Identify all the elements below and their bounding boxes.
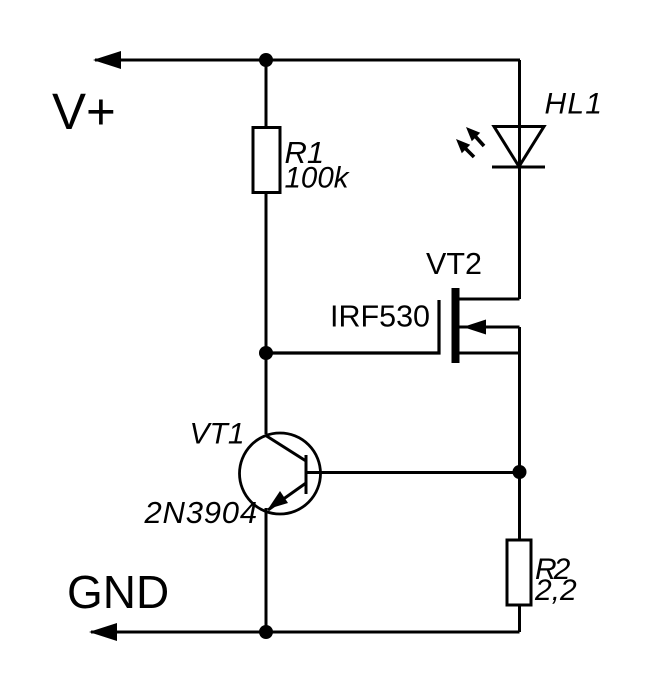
svg-text:2N3904: 2N3904 <box>144 495 258 530</box>
node gate junction <box>259 346 273 360</box>
node ground junction <box>259 625 273 639</box>
wire R2 to bottom rail <box>518 605 521 632</box>
arrow V+ rail <box>93 51 121 69</box>
svg-text:V+: V+ <box>52 83 116 140</box>
mosfet VT2 substrate lead <box>459 352 520 355</box>
wire rail to R1 <box>265 60 268 127</box>
svg-text:GND: GND <box>67 566 169 618</box>
svg-text:VT2: VT2 <box>426 247 482 281</box>
LED light arrow upper <box>466 127 484 146</box>
wire LED branch vertical <box>518 60 521 299</box>
node top junction <box>259 53 273 67</box>
svg-text:2,2: 2,2 <box>534 574 577 607</box>
transistor VT1 base bar <box>305 455 308 494</box>
mosfet VT2 source lead <box>459 326 520 329</box>
wire bottom rail <box>91 631 520 634</box>
resistor R1 <box>253 128 280 193</box>
LED HL1 cathode bar <box>492 166 545 169</box>
transistor VT1 collector line <box>265 435 306 461</box>
wire VT1 emitter to ground <box>265 508 268 632</box>
LED HL1 triangle <box>494 127 544 167</box>
svg-text:100k: 100k <box>285 162 350 195</box>
wire R1 to gate node <box>265 193 268 434</box>
arrow GND rail <box>89 623 117 641</box>
resistor R2 <box>507 540 531 605</box>
mosfet VT2 channel bar <box>452 288 460 363</box>
transistor VT1 emitter arrow <box>268 491 288 509</box>
node source junction <box>513 465 527 479</box>
svg-text:IRF530: IRF530 <box>330 300 430 334</box>
transistor VT1 circle <box>240 433 321 514</box>
wire node to R2 <box>518 472 521 539</box>
svg-text:HL1: HL1 <box>545 88 604 121</box>
mosfet VT2 source arrow <box>463 320 486 335</box>
LED light arrow lower <box>456 139 474 157</box>
wire top rail <box>95 59 520 62</box>
wire VT1 base lead <box>306 471 520 474</box>
wire gate lead <box>266 300 439 353</box>
mosfet VT2 drain lead <box>459 298 520 301</box>
svg-text:VT1: VT1 <box>190 418 245 451</box>
transistor VT1 emitter line <box>268 483 306 510</box>
wire source to node <box>518 327 521 472</box>
